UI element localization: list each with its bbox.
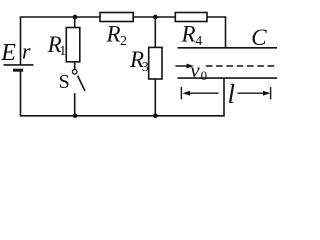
svg-text:2: 2 — [120, 34, 127, 49]
svg-text:R: R — [106, 22, 121, 47]
svg-text:S: S — [59, 71, 70, 93]
svg-text:l: l — [228, 79, 236, 109]
svg-text:1: 1 — [59, 44, 66, 59]
svg-text:4: 4 — [195, 34, 202, 49]
svg-text:r: r — [22, 38, 31, 63]
svg-text:C: C — [251, 25, 267, 50]
svg-text:0: 0 — [201, 68, 208, 83]
svg-text:v: v — [190, 58, 200, 82]
svg-text:3: 3 — [142, 60, 149, 75]
svg-text:E: E — [0, 40, 16, 66]
svg-text:R: R — [181, 21, 196, 46]
